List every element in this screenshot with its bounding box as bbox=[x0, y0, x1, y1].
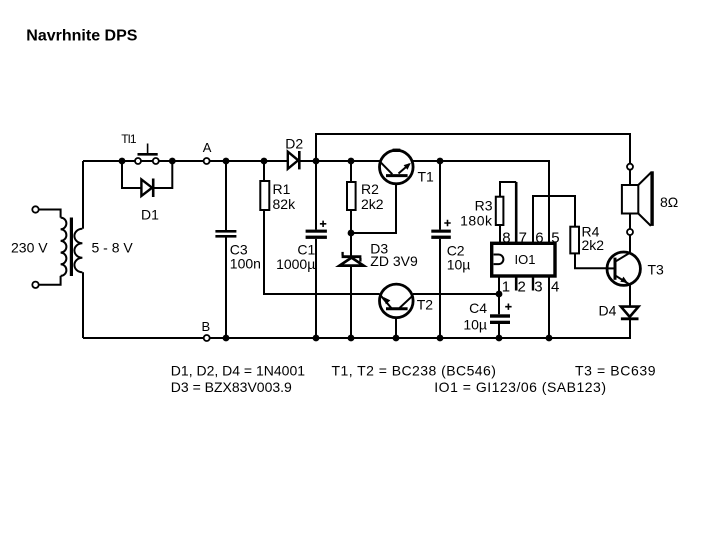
svg-text:8Ω: 8Ω bbox=[660, 194, 678, 210]
svg-text:100n: 100n bbox=[230, 256, 261, 272]
svg-text:IO1: IO1 bbox=[515, 252, 536, 267]
svg-text:D1, D2, D4 = 1N4001: D1, D2, D4 = 1N4001 bbox=[171, 362, 305, 378]
svg-text:180k: 180k bbox=[460, 212, 493, 228]
svg-text:6: 6 bbox=[535, 229, 543, 246]
svg-text:R1: R1 bbox=[273, 181, 291, 197]
svg-text:ZD 3V9: ZD 3V9 bbox=[370, 253, 418, 269]
svg-text:R3: R3 bbox=[475, 197, 493, 213]
svg-text:D1: D1 bbox=[141, 207, 159, 223]
svg-text:82k: 82k bbox=[273, 196, 297, 212]
svg-text:2k2: 2k2 bbox=[361, 196, 384, 212]
svg-text:2: 2 bbox=[518, 278, 526, 295]
svg-text:B: B bbox=[202, 319, 211, 334]
svg-text:230 V: 230 V bbox=[11, 240, 48, 256]
svg-text:IO1 = GI123/06 (SAB123): IO1 = GI123/06 (SAB123) bbox=[434, 379, 606, 395]
svg-text:T3: T3 bbox=[648, 262, 665, 278]
svg-text:R2: R2 bbox=[361, 181, 379, 197]
svg-text:1000µ: 1000µ bbox=[276, 256, 315, 272]
svg-text:T3 = BC639: T3 = BC639 bbox=[575, 362, 656, 378]
svg-text:2k2: 2k2 bbox=[582, 237, 605, 253]
svg-text:T1, T2 = BC238 (BC546): T1, T2 = BC238 (BC546) bbox=[332, 362, 497, 378]
svg-text:D4: D4 bbox=[599, 303, 617, 319]
svg-text:10µ: 10µ bbox=[447, 257, 471, 273]
svg-text:C1: C1 bbox=[297, 241, 315, 257]
svg-text:4: 4 bbox=[551, 278, 559, 295]
svg-text:A: A bbox=[203, 140, 212, 155]
svg-text:7: 7 bbox=[519, 229, 527, 246]
svg-text:Tl1: Tl1 bbox=[121, 132, 137, 146]
svg-text:1: 1 bbox=[502, 278, 510, 295]
svg-text:10µ: 10µ bbox=[463, 317, 487, 333]
svg-text:8: 8 bbox=[502, 229, 510, 246]
svg-text:5: 5 bbox=[551, 229, 559, 246]
svg-text:T1: T1 bbox=[418, 169, 435, 185]
svg-text:D2: D2 bbox=[285, 136, 303, 152]
svg-text:5 - 8 V: 5 - 8 V bbox=[92, 240, 134, 256]
svg-text:Navrhnite DPS: Navrhnite DPS bbox=[26, 28, 137, 45]
svg-text:D3 = BZX83V003.9: D3 = BZX83V003.9 bbox=[171, 379, 292, 395]
svg-text:3: 3 bbox=[534, 278, 542, 295]
svg-text:T2: T2 bbox=[417, 297, 434, 313]
svg-text:C4: C4 bbox=[469, 300, 487, 316]
